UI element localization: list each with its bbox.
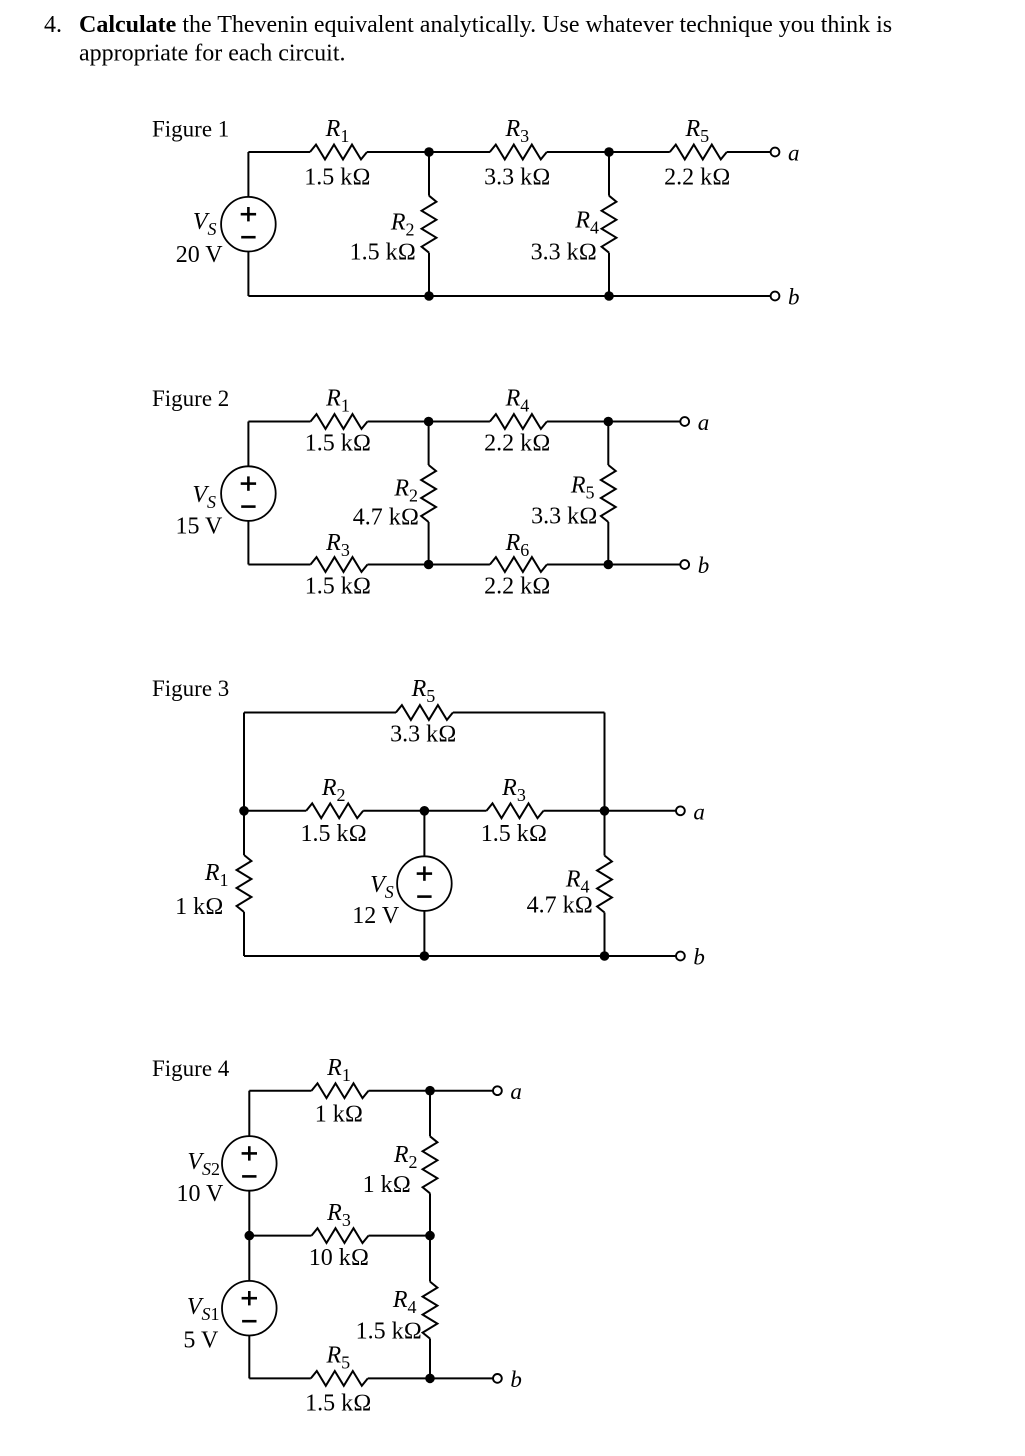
- terminal b: [771, 285, 800, 310]
- wire R4 bottom stub: [608, 253, 610, 296]
- resistor R4 3.3 kOhm: [531, 196, 617, 266]
- wire top 2 fig4: [369, 1090, 494, 1092]
- resistor R6 2.2 kOhm: [484, 530, 550, 600]
- svg-text:1.5 kΩ: 1.5 kΩ: [305, 431, 371, 457]
- wire top left fig3: [244, 712, 396, 714]
- svg-text:3.3 kΩ: 3.3 kΩ: [531, 240, 597, 266]
- terminal a fig3: [676, 799, 705, 824]
- wire VS2 top stub: [248, 1091, 250, 1137]
- node left middle fig4: [245, 1231, 255, 1241]
- resistor R2 4.7 kOhm: [353, 465, 436, 531]
- wire bottom fig3: [244, 955, 676, 957]
- wire VS2 bottom stub: [248, 1191, 250, 1236]
- wire R4 bottom stub fig3: [604, 913, 606, 957]
- svg-text:1.5 kΩ: 1.5 kΩ: [356, 1318, 422, 1344]
- figure 4 caption: [152, 1056, 230, 1081]
- wire top 3 fig2: [547, 421, 681, 423]
- wire R2 top stub fig4: [429, 1091, 431, 1137]
- problem statement line 2: [79, 41, 346, 67]
- wire right vertical upper fig3: [604, 713, 606, 811]
- svg-text:Figure 3: Figure 3: [152, 676, 229, 701]
- wire R4 top stub fig4: [429, 1236, 431, 1282]
- wire left vertical upper fig3: [243, 713, 245, 811]
- svg-text:10 kΩ: 10 kΩ: [309, 1245, 369, 1271]
- wire top 1: [248, 151, 310, 153]
- wire R2 bottom stub fig2: [428, 522, 430, 565]
- svg-text:2.2 kΩ: 2.2 kΩ: [484, 574, 550, 600]
- wire top 1 fig2: [248, 421, 310, 423]
- wire middle 2 fig3: [363, 810, 486, 812]
- wire R4 bottom stub fig4: [429, 1339, 431, 1379]
- terminal a fig2: [680, 410, 709, 435]
- wire R5 top stub fig2: [607, 422, 609, 466]
- svg-text:Figure 4: Figure 4: [152, 1056, 230, 1081]
- svg-text:3.3 kΩ: 3.3 kΩ: [484, 164, 550, 190]
- svg-text:20 V: 20 V: [176, 242, 224, 268]
- resistor R3 1.5 kOhm fig2: [305, 530, 371, 600]
- wire source top stub fig2: [247, 422, 249, 467]
- svg-text:1 kΩ: 1 kΩ: [175, 894, 223, 920]
- resistor R1 1 kOhm: [175, 855, 251, 920]
- wire top 4: [727, 151, 771, 153]
- resistor R4 2.2 kOhm: [484, 386, 550, 457]
- node center bottom fig3: [420, 951, 430, 961]
- wire bottom 1 fig2: [248, 564, 310, 566]
- node bottom fig4: [425, 1374, 435, 1384]
- figure 2 caption: [152, 386, 229, 411]
- terminal a: [771, 141, 800, 166]
- voltage source VS1 5 V: [183, 1281, 276, 1354]
- svg-text:1 kΩ: 1 kΩ: [363, 1172, 411, 1198]
- wire bottom 2 fig2: [368, 564, 490, 566]
- resistor R4 4.7 kOhm: [527, 856, 612, 919]
- wire bottom: [248, 295, 770, 297]
- voltage source VS 20 V: [176, 197, 276, 268]
- svg-text:1.5 kΩ: 1.5 kΩ: [481, 821, 547, 847]
- svg-text:1.5 kΩ: 1.5 kΩ: [305, 1390, 371, 1416]
- wire middle 1 fig4: [249, 1235, 311, 1237]
- node 2 top fig2: [604, 417, 614, 427]
- node center middle fig3: [420, 806, 430, 816]
- resistor R2 1.5 kOhm fig3: [300, 775, 366, 847]
- voltage source VS2 10 V: [176, 1136, 276, 1207]
- node left middle fig3: [239, 806, 249, 816]
- wire R2 bottom stub: [428, 253, 430, 296]
- svg-text:b: b: [698, 553, 710, 578]
- resistor R3 3.3 kOhm: [484, 116, 550, 190]
- node right middle fig3: [600, 806, 610, 816]
- svg-text:4.7 kΩ: 4.7 kΩ: [353, 505, 419, 531]
- wire source bottom stub: [247, 251, 249, 296]
- wire bottom 2 fig4: [368, 1377, 493, 1379]
- svg-text:b: b: [693, 945, 705, 970]
- svg-text:b: b: [788, 285, 800, 310]
- svg-text:4.7 kΩ: 4.7 kΩ: [527, 893, 593, 919]
- wire source top stub fig3: [423, 811, 425, 857]
- svg-text:a: a: [698, 410, 710, 435]
- node top fig4: [425, 1086, 435, 1096]
- svg-text:3.3 kΩ: 3.3 kΩ: [390, 722, 456, 748]
- voltage source VS 15 V: [175, 466, 275, 539]
- resistor R1 1 kOhm fig4: [312, 1055, 369, 1128]
- terminal a fig4: [493, 1079, 522, 1104]
- resistor R5 3.3 kOhm fig3: [390, 676, 456, 747]
- wire R2 bottom stub fig4: [429, 1193, 431, 1235]
- wire bottom 1 fig4: [249, 1377, 310, 1379]
- resistor R4 1.5 kOhm fig4: [356, 1282, 438, 1345]
- node 2 top: [604, 147, 614, 157]
- node right bottom fig3: [600, 951, 610, 961]
- problem statement line 1: [44, 12, 892, 38]
- terminal b fig2: [680, 553, 709, 578]
- node 1 top: [424, 147, 434, 157]
- wire source bottom stub fig2: [247, 521, 249, 565]
- wire R1 top stub fig3: [243, 811, 245, 855]
- wire bottom 3 fig2: [547, 564, 681, 566]
- terminal b fig3: [676, 945, 705, 970]
- wire R4 top stub: [608, 152, 610, 196]
- voltage source VS 12 V: [352, 856, 451, 929]
- svg-text:b: b: [510, 1367, 522, 1392]
- svg-text:5 V: 5 V: [183, 1328, 219, 1354]
- node 1 top fig2: [424, 417, 434, 427]
- wire VS1 top stub: [248, 1236, 250, 1281]
- wire top 1 fig4: [249, 1090, 311, 1092]
- svg-text:a: a: [693, 799, 705, 824]
- svg-text:Figure 2: Figure 2: [152, 386, 229, 411]
- svg-text:1.5 kΩ: 1.5 kΩ: [304, 164, 370, 190]
- wire top 2 fig2: [368, 421, 490, 423]
- wire R2 top stub: [428, 152, 430, 196]
- node 1 bottom fig2: [424, 560, 434, 570]
- wire source top stub: [247, 152, 249, 197]
- resistor R5 3.3 kOhm fig2: [531, 465, 616, 530]
- resistor R3 10 kOhm: [309, 1200, 369, 1271]
- wire R4 top stub fig3: [604, 811, 606, 856]
- wire middle 1 fig3: [244, 810, 306, 812]
- svg-text:1 kΩ: 1 kΩ: [315, 1102, 363, 1128]
- svg-text:4.Calculate the Thevenin equiv: 4.Calculate the Thevenin equivalent anal…: [44, 12, 892, 38]
- resistor R3 1.5 kOhm fig3: [481, 775, 547, 847]
- node 2 bottom fig2: [604, 560, 614, 570]
- svg-text:2.2 kΩ: 2.2 kΩ: [484, 431, 550, 457]
- wire top right fig3: [453, 712, 605, 714]
- svg-text:a: a: [788, 141, 800, 166]
- svg-text:a: a: [510, 1079, 522, 1104]
- wire R5 bottom stub fig2: [607, 522, 609, 565]
- figure 3 caption: [152, 676, 229, 701]
- svg-text:3.3 kΩ: 3.3 kΩ: [531, 504, 597, 530]
- svg-text:1.5 kΩ: 1.5 kΩ: [350, 240, 416, 266]
- wire R2 top stub fig2: [428, 422, 430, 466]
- resistor R5 2.2 kOhm: [664, 116, 730, 190]
- node 2 bottom: [604, 291, 614, 301]
- node 1 bottom: [424, 291, 434, 301]
- svg-text:12 V: 12 V: [352, 903, 400, 929]
- resistor R1 1.5 kOhm: [304, 116, 370, 190]
- svg-text:Figure 1: Figure 1: [152, 117, 229, 142]
- resistor R2 1.5 kOhm: [350, 196, 437, 266]
- svg-text:2.2 kΩ: 2.2 kΩ: [664, 164, 730, 190]
- svg-text:1.5 kΩ: 1.5 kΩ: [305, 574, 371, 600]
- svg-text:15 V: 15 V: [175, 514, 223, 540]
- resistor R5 1.5 kOhm fig4: [305, 1342, 371, 1416]
- wire R1 bottom stub fig3: [243, 912, 245, 956]
- terminal b fig4: [493, 1367, 522, 1392]
- figure 1 caption: [152, 117, 229, 142]
- resistor R2 1 kOhm fig4: [363, 1136, 438, 1198]
- resistor R1 1.5 kOhm fig2: [305, 386, 371, 457]
- wire VS1 bottom stub: [248, 1335, 250, 1378]
- wire top 3: [547, 151, 670, 153]
- wire middle 2 fig4: [369, 1235, 431, 1237]
- wire middle 3 fig3: [544, 810, 677, 812]
- svg-text:1.5 kΩ: 1.5 kΩ: [300, 821, 366, 847]
- wire source bottom stub fig3: [423, 911, 425, 956]
- svg-text:appropriate for each circuit.: appropriate for each circuit.: [79, 41, 346, 67]
- svg-text:10 V: 10 V: [176, 1181, 224, 1207]
- wire top 2: [367, 151, 490, 153]
- node right middle fig4: [425, 1231, 435, 1241]
